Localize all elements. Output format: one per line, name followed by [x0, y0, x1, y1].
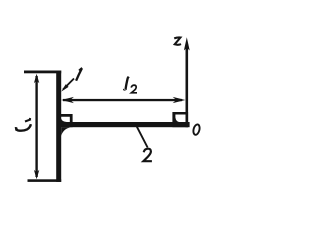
dimension line l2	[61, 97, 185, 103]
leader line to label 2	[137, 126, 148, 148]
z axis	[184, 37, 190, 127]
web 2 (horizontal thin wall, length l2)	[58, 122, 190, 127]
flange 1 (vertical thin wall, length l1)	[56, 71, 61, 182]
label l2 (subscript 2)	[131, 85, 137, 93]
label l1 (script ell, rotated 90deg CCW)	[16, 124, 31, 130]
z axis label	[174, 37, 181, 44]
right-angle marker at origin O	[172, 112, 188, 127]
leader line to label 1	[61, 79, 74, 92]
label 2	[143, 149, 152, 162]
label 0 (origin)	[192, 124, 200, 136]
label l1 (subscript 1, rotated 90deg CCW)	[25, 119, 31, 122]
label 1	[76, 68, 82, 81]
label l1 (ell top tick, rotated)	[15, 127, 19, 131]
dimension line l1	[34, 74, 39, 180]
top extension line	[24, 71, 61, 74]
junction fillet below web	[61, 127, 70, 136]
right-angle marker at wall/web junction	[60, 114, 73, 127]
bottom extension line	[28, 179, 62, 182]
label l2 (script ell)	[124, 77, 128, 90]
